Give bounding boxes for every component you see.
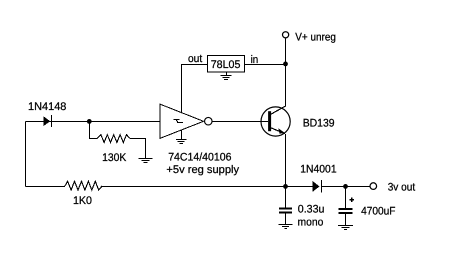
- svg-text:1N4001: 1N4001: [300, 164, 336, 176]
- svg-text:3v out: 3v out: [388, 181, 416, 193]
- svg-text:mono: mono: [298, 217, 324, 229]
- svg-text:4700uF: 4700uF: [361, 205, 396, 217]
- svg-text:BD139: BD139: [303, 117, 335, 129]
- svg-text:V+ unreg: V+ unreg: [295, 32, 336, 44]
- svg-text:74C14/40106: 74C14/40106: [168, 151, 231, 163]
- svg-text:in: in: [251, 54, 259, 66]
- svg-text:out: out: [188, 53, 202, 65]
- svg-text:+5v reg supply: +5v reg supply: [166, 164, 239, 176]
- svg-text:130K: 130K: [102, 152, 127, 164]
- svg-text:0.33u: 0.33u: [298, 203, 325, 215]
- svg-text:1K0: 1K0: [73, 195, 92, 207]
- svg-text:78L05: 78L05: [211, 59, 241, 71]
- svg-text:1N4148: 1N4148: [28, 101, 66, 113]
